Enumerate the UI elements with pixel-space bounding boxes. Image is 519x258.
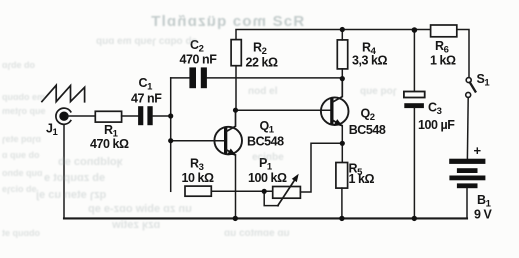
wire C1 to node A <box>153 115 171 117</box>
wire R5 to ground rail <box>341 188 343 218</box>
svg-text:Q2: Q2 <box>361 106 375 123</box>
sawtooth input waveform symbol <box>42 85 85 102</box>
resistor R6 <box>431 25 457 37</box>
svg-text:C1: C1 <box>139 76 154 93</box>
svg-text:J1: J1 <box>46 122 59 139</box>
node C3 ground junction <box>412 216 417 221</box>
wire ground rail <box>64 217 467 219</box>
bleed-through ghost text <box>150 13 304 30</box>
svg-text:BC548: BC548 <box>247 135 284 149</box>
wire R4 bottom to Q2 collector <box>341 69 343 79</box>
wire R6 to S1 <box>457 30 469 78</box>
wire R1 to C1 <box>122 115 139 117</box>
resistor R5 <box>336 163 348 189</box>
svg-text:470 kΩ: 470 kΩ <box>90 137 129 151</box>
svg-text:3,3 kΩ: 3,3 kΩ <box>352 54 388 68</box>
capacitor C1 <box>138 106 153 125</box>
svg-text:100 µF: 100 µF <box>418 118 455 132</box>
node Q1 collector junction <box>233 108 238 113</box>
svg-text:1 kΩ: 1 kΩ <box>430 54 456 68</box>
wire battery to ground rail <box>466 188 468 218</box>
node Q2 emitter junction <box>340 141 345 146</box>
switch S1 <box>466 78 476 98</box>
svg-text:C3: C3 <box>428 101 442 118</box>
node Q2 collector junction <box>340 76 345 81</box>
capacitor C3 (electrolytic) <box>404 30 425 218</box>
wire Q1 base <box>171 140 224 142</box>
wire C2 to R4 bottom node <box>207 77 342 79</box>
node Q1 emitter ground junction <box>233 216 238 221</box>
node R4 top rail junction <box>340 27 345 32</box>
node C3 top rail junction <box>412 27 418 33</box>
resistor R1 <box>95 111 121 122</box>
wire J1 down to ground rail <box>63 124 65 218</box>
transistor Q2 <box>321 79 349 129</box>
wire node A up to C2 <box>171 77 190 79</box>
node P1 wiper junction <box>262 189 267 194</box>
resistor R3 <box>185 186 211 196</box>
node A junction (C1/C2) <box>168 113 173 118</box>
svg-text:9 V: 9 V <box>474 208 493 222</box>
node Q1 base junction <box>168 138 173 143</box>
jack J1 <box>56 108 71 124</box>
wire top rail <box>236 30 431 40</box>
svg-text:Q1: Q1 <box>260 119 275 136</box>
svg-text:10 kΩ: 10 kΩ <box>182 171 215 185</box>
wire P1 to Q2 emitter node <box>300 143 342 192</box>
wire Q2 emitter to R5 <box>341 126 343 163</box>
capacitor C2 <box>189 67 207 88</box>
resistor R2 <box>231 40 241 66</box>
svg-text:470 nF: 470 nF <box>180 53 218 67</box>
svg-text:1 kΩ: 1 kΩ <box>349 172 375 186</box>
svg-text:22 kΩ: 22 kΩ <box>246 56 279 70</box>
wire J1 to R1 <box>67 115 95 117</box>
battery B1 <box>449 159 485 189</box>
node R5 ground junction <box>339 216 344 221</box>
wire R3 to P1 <box>211 190 272 192</box>
wire S1 to battery <box>466 97 469 158</box>
wire R2 to Q1 collector node <box>235 66 237 111</box>
resistor R4 <box>337 40 347 69</box>
svg-text:47 nF: 47 nF <box>131 92 162 106</box>
node A vertical wire (C2/base/R3 riser) <box>170 78 172 191</box>
svg-text:S1: S1 <box>477 72 491 89</box>
potentiometer P1 <box>273 172 302 205</box>
svg-text:BC548: BC548 <box>349 123 386 137</box>
wire Q1 emitter to ground rail <box>235 155 237 219</box>
transistor Q1 <box>214 110 242 158</box>
wire R4 top <box>341 30 343 40</box>
svg-text:+: + <box>474 143 482 158</box>
wire Q1 collector to Q2 base <box>236 109 331 111</box>
svg-text:100 kΩ: 100 kΩ <box>248 171 287 185</box>
wire P1 wiper loop <box>264 191 278 205</box>
